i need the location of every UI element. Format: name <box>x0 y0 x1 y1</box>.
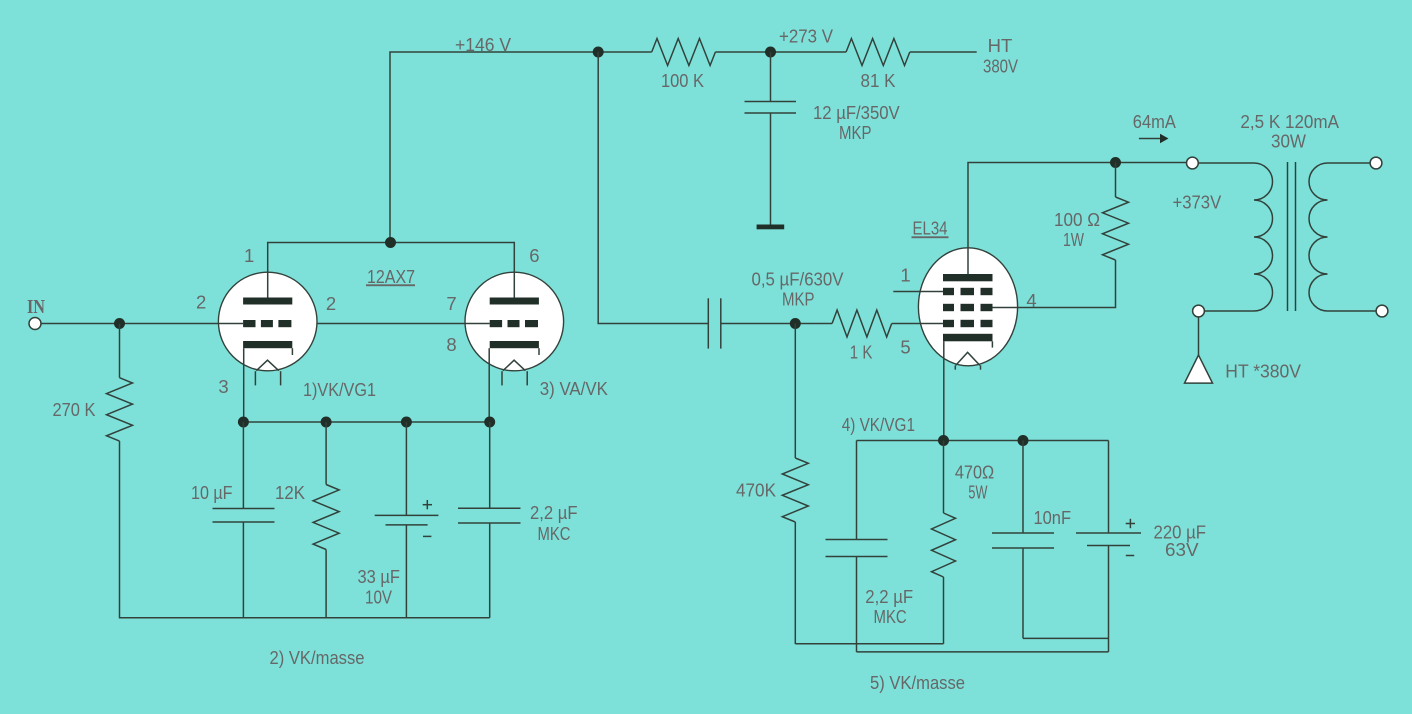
resistor R3 81 K <box>846 39 910 66</box>
tube V1b heater <box>503 360 526 371</box>
svg-text:10V: 10V <box>365 587 393 608</box>
wire C2 to ground <box>770 113 772 225</box>
svg-text:HT *380V: HT *380V <box>1225 361 1301 382</box>
terminal primary top <box>1187 157 1199 169</box>
node input junction <box>114 318 125 329</box>
node anode/transformer junction <box>1110 157 1121 168</box>
svg-text:MKC: MKC <box>874 606 907 627</box>
node anode rail junction <box>385 237 396 248</box>
capacitor C4 2,2 uF MKC <box>489 422 491 508</box>
wire cathode rail <box>243 421 489 423</box>
svg-text:0,5 µF/630V: 0,5 µF/630V <box>752 269 845 290</box>
svg-text:+146 V: +146 V <box>455 34 512 55</box>
resistor R8 470 Ohm 5W <box>943 441 945 514</box>
terminal primary bottom <box>1193 305 1205 317</box>
svg-text:1)VK/VG1: 1)VK/VG1 <box>303 379 376 400</box>
svg-text:2: 2 <box>196 292 206 313</box>
wire V2 anode to top rail <box>968 163 1187 275</box>
svg-text:1W: 1W <box>1063 229 1084 250</box>
node K3 <box>401 417 412 428</box>
tube V1b envelope (12AX7 triode b) <box>465 272 564 371</box>
svg-text:4: 4 <box>1026 290 1036 311</box>
resistor R4 12K <box>325 422 327 485</box>
tube V2 anode plate <box>943 274 993 281</box>
svg-text:5) VK/masse: 5) VK/masse <box>870 672 965 693</box>
node K5 <box>938 435 949 446</box>
tube V1b grid <box>490 320 502 327</box>
resistor R1 270 K <box>107 378 133 441</box>
svg-text:MKP: MKP <box>782 289 815 310</box>
tube V1b cathode <box>490 341 539 348</box>
transformer T1 core <box>1287 162 1289 311</box>
svg-text:30W: 30W <box>1271 131 1306 152</box>
terminal secondary top <box>1370 157 1382 169</box>
wire +273V to C2 <box>770 52 772 102</box>
ground symbol <box>757 225 785 230</box>
resistor R2 100 K <box>652 39 716 66</box>
C8 plus sign <box>1126 523 1135 525</box>
resistor R7 100 Ohm 1W <box>1115 163 1117 198</box>
wire V2 cathode down <box>943 341 945 440</box>
svg-text:10 µF: 10 µF <box>191 482 233 503</box>
svg-text:6: 6 <box>529 245 539 266</box>
svg-text:380V: 380V <box>983 56 1019 77</box>
wire pin 1 stub <box>893 291 943 293</box>
svg-text:2) VK/masse: 2) VK/masse <box>270 647 365 668</box>
tube V2 cathode <box>943 334 993 342</box>
wire V1a grid to V1b grid <box>317 323 490 325</box>
node +273V junction <box>765 47 776 58</box>
svg-text:1 K: 1 K <box>850 342 873 363</box>
svg-text:10nF: 10nF <box>1034 507 1072 528</box>
svg-text:2,2 µF: 2,2 µF <box>865 586 913 607</box>
wire input node down <box>119 324 121 378</box>
tube V2 grid g1 <box>943 320 954 327</box>
svg-text:+273 V: +273 V <box>779 26 834 47</box>
svg-text:+373V: +373V <box>1173 192 1222 213</box>
svg-text:IN: IN <box>27 296 45 318</box>
tube V1b anode plate <box>490 298 539 305</box>
transformer T1 primary <box>1198 163 1272 311</box>
svg-text:EL34: EL34 <box>913 218 948 239</box>
svg-text:5: 5 <box>900 337 910 358</box>
wire ground rail B <box>1023 637 1109 639</box>
power symbol HT *380V triangle <box>1185 355 1213 383</box>
svg-text:2,2 µF: 2,2 µF <box>530 502 578 523</box>
svg-text:12 µF/350V: 12 µF/350V <box>813 102 900 123</box>
svg-text:100 K: 100 K <box>661 70 705 91</box>
wire R1 to bottom rail <box>120 441 490 618</box>
svg-text:5W: 5W <box>968 481 987 502</box>
svg-text:63V: 63V <box>1165 539 1199 560</box>
svg-text:7: 7 <box>446 293 456 314</box>
node grid G2 junction <box>790 318 801 329</box>
tube V2 grid g3 <box>943 288 954 295</box>
wire ground rail C <box>857 651 1109 653</box>
svg-text:12AX7: 12AX7 <box>367 266 415 287</box>
wire +146V rail top <box>390 52 652 242</box>
wire R7 to pin 4 <box>992 260 1115 308</box>
resistor R6 470K grid leak <box>794 324 796 459</box>
svg-text:HT: HT <box>988 35 1013 56</box>
resistor R5 1 K <box>832 310 892 337</box>
wire IN to V1a grid <box>41 323 243 325</box>
tube V2 heater <box>956 352 980 365</box>
svg-text:MKP: MKP <box>839 122 872 143</box>
capacitor C5 0,5 uF/630V MKP <box>707 298 709 348</box>
svg-text:1: 1 <box>244 245 254 266</box>
tube V1a anode plate <box>243 298 292 305</box>
wire 100K to 81K <box>715 51 846 53</box>
node K2 <box>321 417 332 428</box>
svg-text:100 Ω: 100 Ω <box>1054 209 1100 230</box>
wire V1a cathode down <box>243 348 245 422</box>
svg-text:2: 2 <box>326 293 336 314</box>
C3 minus sign <box>423 535 431 537</box>
arrow 64mA <box>1139 138 1161 140</box>
wire primary bottom to HT symbol <box>1198 317 1200 355</box>
C8 minus sign <box>1126 555 1134 557</box>
tube V2 grid g2 <box>943 304 954 311</box>
svg-text:1: 1 <box>900 265 910 286</box>
svg-text:12K: 12K <box>275 482 306 503</box>
svg-text:33 µF: 33 µF <box>358 566 401 587</box>
node +146V junction <box>593 47 604 58</box>
capacitor C1 10 uF <box>242 422 244 509</box>
capacitor C7 10nF <box>1022 441 1024 534</box>
wire cathode rail 2 <box>857 440 1109 442</box>
capacitor C8 220 uF/63V electrolytic <box>1108 441 1110 534</box>
node K4 <box>484 417 495 428</box>
wire C5 to R5 <box>721 323 832 325</box>
svg-text:81 K: 81 K <box>861 70 897 91</box>
tube V1a grid <box>243 320 255 327</box>
svg-text:MKC: MKC <box>538 523 571 544</box>
svg-text:470K: 470K <box>736 480 777 501</box>
capacitor C2 12 uF/350V MKP <box>745 101 797 103</box>
tube V1a envelope (12AX7 triode a) <box>218 272 317 371</box>
svg-text:4) VK/VG1: 4) VK/VG1 <box>842 414 915 435</box>
wire anode rail V1 <box>268 243 515 298</box>
capacitor C3 33 uF/10V electrolytic <box>405 422 407 515</box>
svg-text:470Ω: 470Ω <box>955 462 994 483</box>
tube V1a cathode <box>243 341 292 348</box>
terminal secondary bottom <box>1376 305 1388 317</box>
svg-text:64mA: 64mA <box>1133 111 1177 132</box>
svg-text:3: 3 <box>218 376 228 397</box>
wire anode node to C5 <box>598 52 708 324</box>
node K6 <box>1018 435 1029 446</box>
tube V1a heater <box>256 360 279 371</box>
wire R5 to V2 grid pin 5 <box>892 323 943 325</box>
svg-text:8: 8 <box>446 334 456 355</box>
node K1 <box>238 417 249 428</box>
svg-text:270 K: 270 K <box>53 399 97 420</box>
svg-text:2,5 K 120mA: 2,5 K 120mA <box>1240 111 1339 132</box>
C3 plus sign <box>423 504 432 506</box>
transformer T1 secondary <box>1309 163 1376 311</box>
svg-text:3) VA/VK: 3) VA/VK <box>540 378 609 399</box>
wire 81K to HT <box>910 51 977 53</box>
wire ground rail A <box>795 643 943 645</box>
terminal IN <box>29 318 41 330</box>
tube V2 envelope (EL34) <box>918 248 1017 366</box>
wire V1b cathode down <box>488 348 490 422</box>
capacitor C6 2,2 uF MKC <box>856 441 858 540</box>
